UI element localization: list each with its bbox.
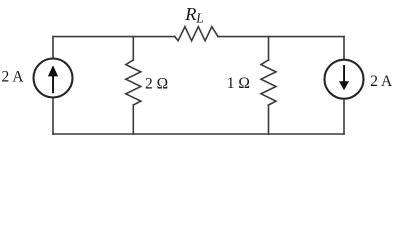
- svg-text:2 A: 2 A: [2, 68, 25, 85]
- wire top rail left segment: [53, 36, 175, 38]
- svg-text:R: R: [184, 4, 196, 24]
- wire left source top lead: [52, 37, 54, 59]
- resistor RL zigzag: [175, 27, 218, 41]
- resistor R1 2-ohm zigzag: [126, 60, 141, 105]
- wire 1-ohm top lead: [268, 37, 270, 60]
- wire 2-ohm top lead: [132, 37, 134, 60]
- wire 2-ohm bottom lead: [132, 105, 134, 134]
- wire right source bottom lead: [343, 99, 345, 134]
- resistor R2 1-ohm zigzag: [261, 60, 276, 105]
- current source I1 left circle: [34, 59, 73, 98]
- svg-text:2 Ω: 2 Ω: [145, 75, 168, 92]
- svg-text:L: L: [195, 11, 203, 26]
- current source I1 arrow up: [48, 65, 58, 93]
- svg-text:1 Ω: 1 Ω: [227, 75, 250, 92]
- wire right source top lead: [343, 37, 345, 60]
- wire left source bottom lead: [52, 98, 54, 135]
- wire bottom rail: [53, 133, 344, 135]
- current source I2 arrow down: [339, 65, 349, 90]
- svg-text:2 A: 2 A: [370, 73, 393, 90]
- current source I2 right circle: [325, 60, 364, 99]
- wire top rail right segment: [218, 36, 344, 38]
- wire 1-ohm bottom lead: [268, 105, 270, 134]
